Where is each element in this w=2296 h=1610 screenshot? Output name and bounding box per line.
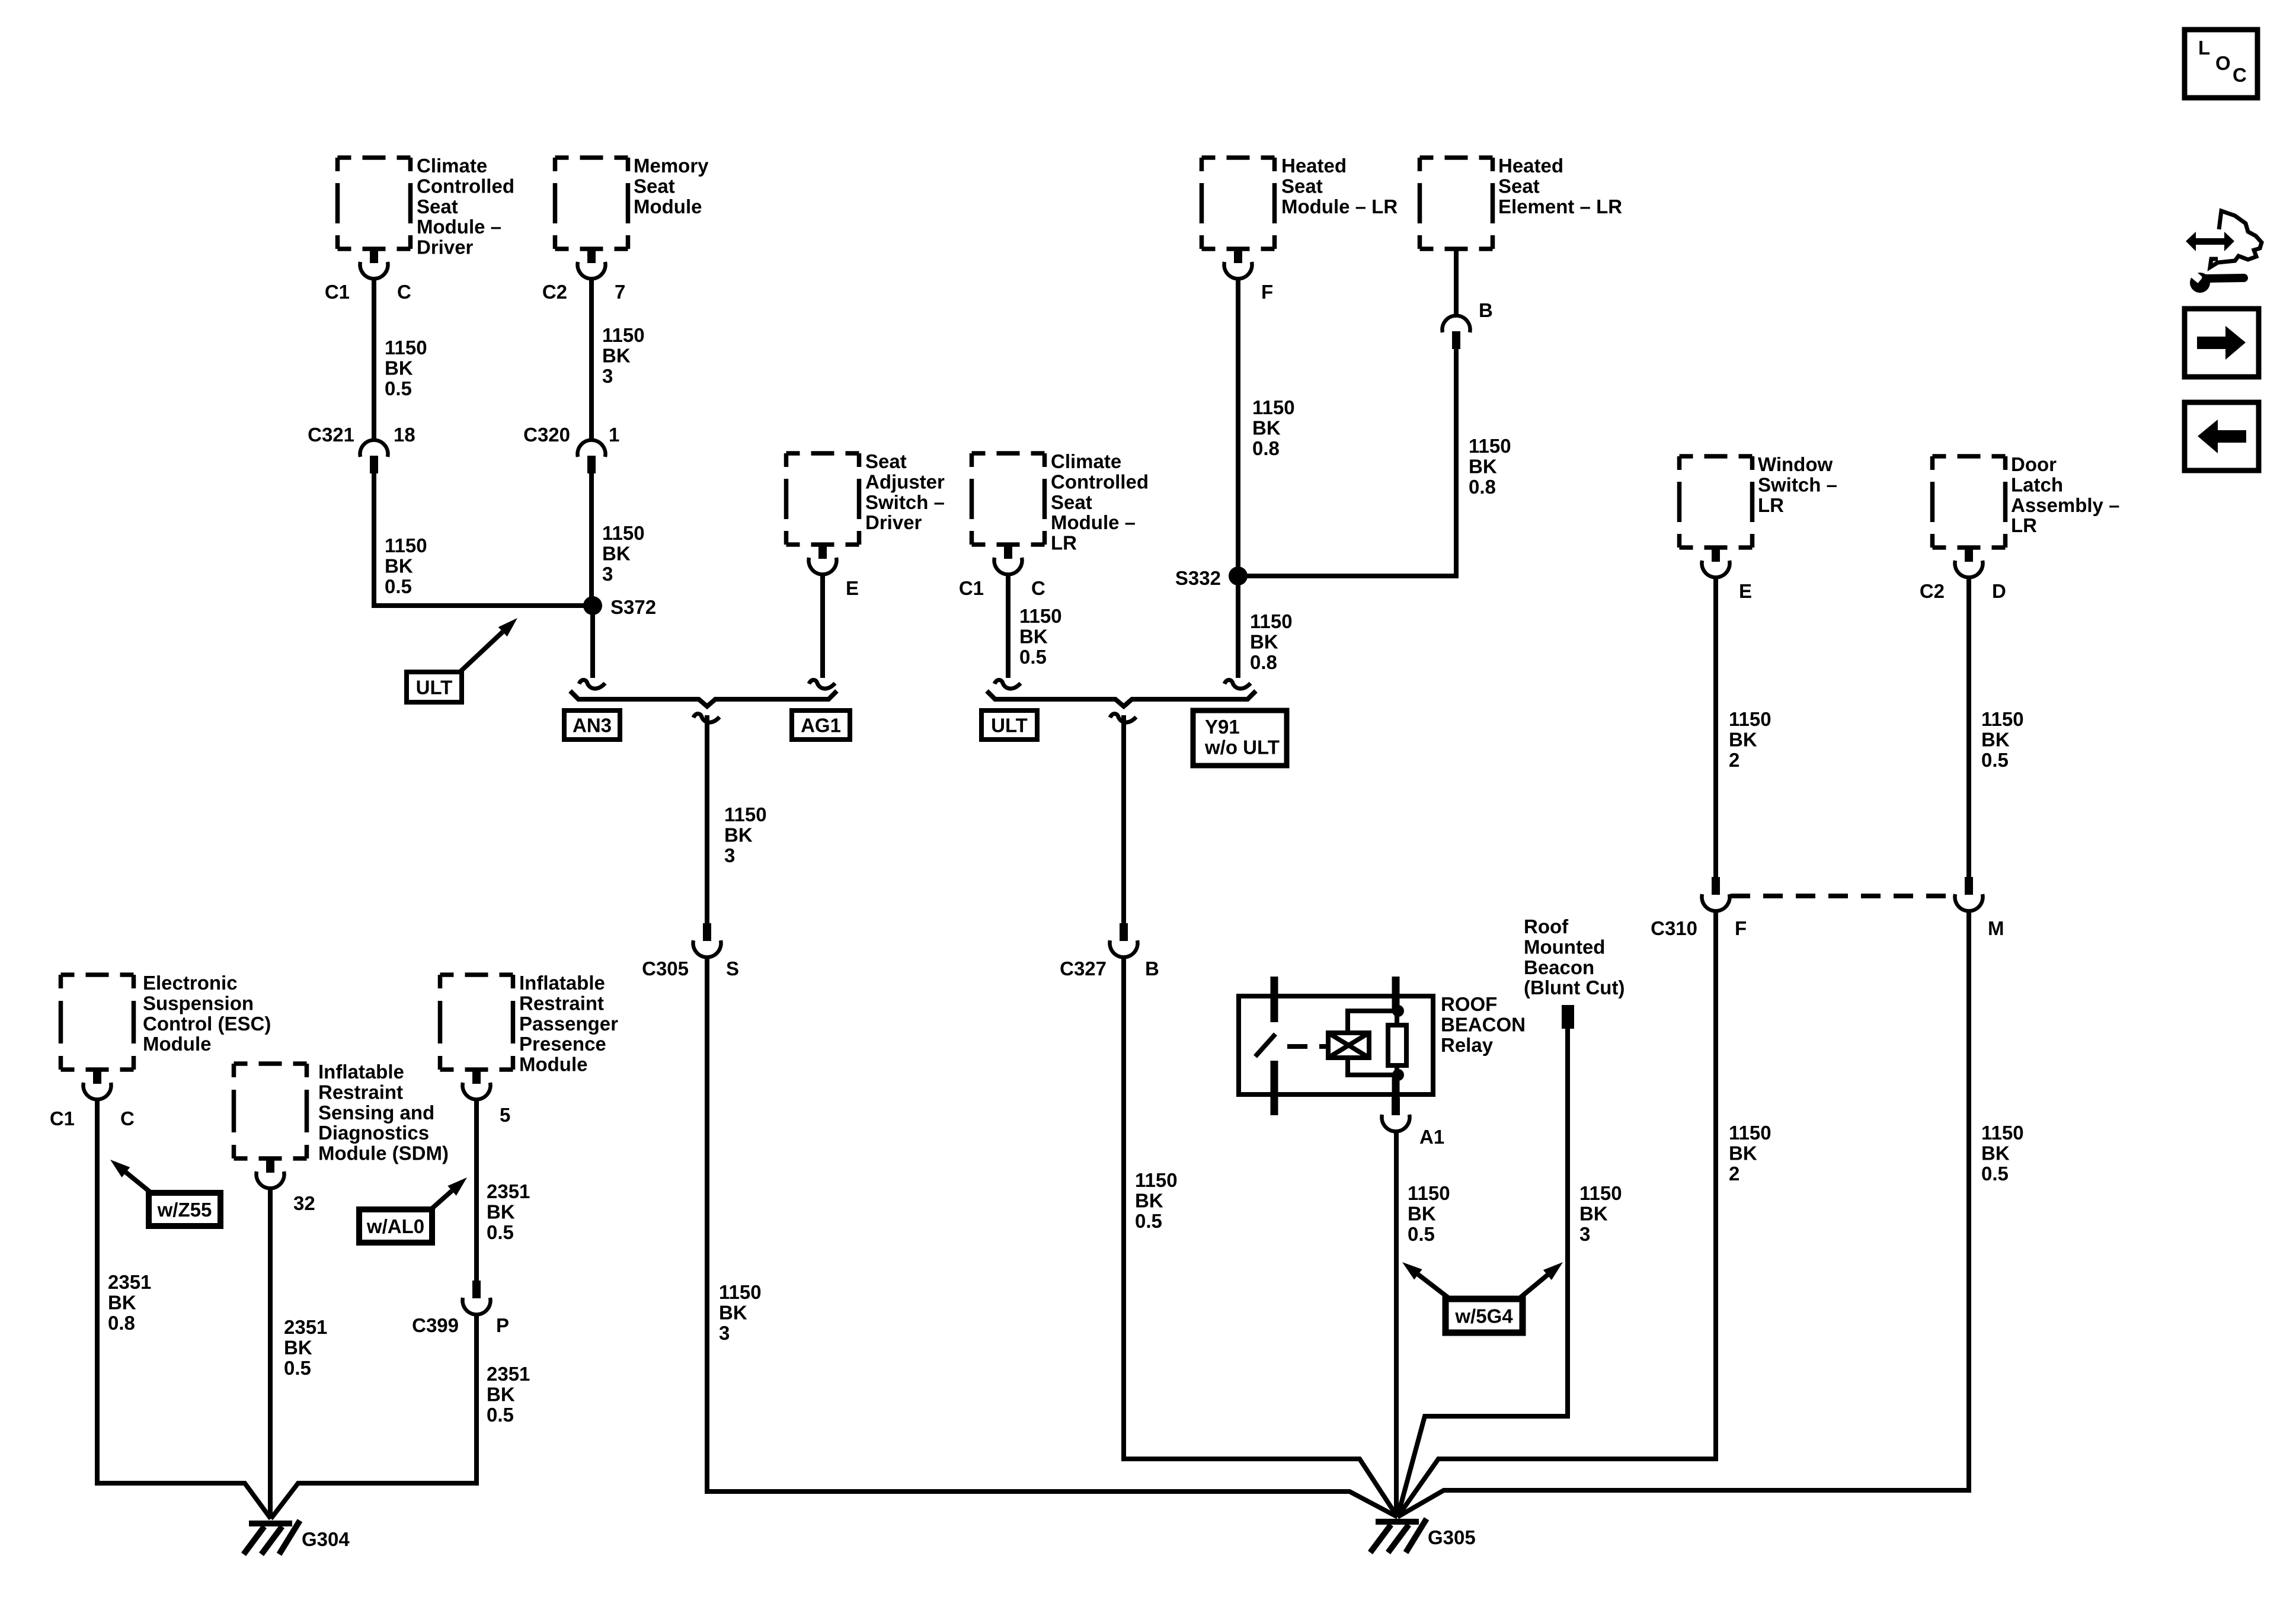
- svg-text:C305: C305: [642, 958, 689, 980]
- wire: CCSM-LR C to ULT bus: [1006, 574, 1011, 678]
- svg-text:S332: S332: [1175, 567, 1221, 589]
- relay actuation dashed link: [1287, 1044, 1329, 1049]
- svg-text:7: 7: [615, 281, 625, 303]
- connector connector B: [1443, 316, 1470, 349]
- wire: blunt cut to G305: [1398, 1029, 1568, 1517]
- hook at AG1 bus: [809, 680, 835, 689]
- svg-text:C1: C1: [325, 281, 350, 303]
- svg-text:C310: C310: [1651, 917, 1697, 939]
- callout w/5G4: [1446, 1299, 1523, 1333]
- svg-text:S: S: [726, 958, 739, 980]
- wire: C305 down, to G305: [707, 957, 1398, 1517]
- wire: ESC C to G304: [97, 1099, 271, 1519]
- wire: Memory Seat 7 to C320: [589, 279, 594, 440]
- wire: C399 to G304: [271, 1314, 477, 1519]
- svg-text:L: L: [2198, 37, 2210, 59]
- LOC reference box: [2185, 30, 2257, 98]
- module box: Seat Adjuster Switch - Driver: [786, 453, 859, 545]
- svg-text:C2: C2: [542, 281, 567, 303]
- ground G304: [244, 1521, 300, 1554]
- svg-text:F: F: [1261, 281, 1273, 303]
- connector Door Latch pin D (C2): [1955, 548, 1982, 577]
- wire: C310 to G305: [1398, 911, 1716, 1517]
- arrow to ULT option wire: [460, 618, 517, 672]
- wire: C327 down to G305: [1124, 957, 1398, 1517]
- svg-text:C1: C1: [50, 1108, 75, 1129]
- svg-text:1: 1: [609, 424, 619, 446]
- splice S332: [1229, 566, 1248, 585]
- module box: Climate Controlled Seat Module - Driver: [338, 158, 411, 249]
- connector C305 pin S: [693, 923, 721, 957]
- connector PPM pin 5: [462, 1070, 490, 1099]
- svg-text:M: M: [1988, 917, 2004, 939]
- connector ESC pin C (C1): [84, 1070, 111, 1099]
- connector CCSM-Driver pin C (C1): [360, 249, 388, 279]
- bus brace ULT/Y91: [987, 691, 1256, 706]
- svg-text:B: B: [1479, 299, 1493, 321]
- callout Y91 w/o ULT: [1193, 710, 1287, 766]
- callout AG1: [792, 710, 850, 740]
- svg-text:Y91: Y91: [1205, 716, 1240, 738]
- connector SDM pin 32: [257, 1158, 284, 1188]
- hook below ULT/Y91 bus notch: [1110, 714, 1136, 723]
- svg-text:ULT: ULT: [416, 677, 453, 699]
- svg-text:18: 18: [394, 424, 415, 446]
- connector C310 pin F: [1702, 877, 1730, 911]
- arrow to beacon wire (w/5G4): [1517, 1262, 1563, 1300]
- relay node dots: [1392, 1005, 1404, 1017]
- callout AN3: [564, 710, 620, 740]
- callout ULT option: [407, 672, 462, 702]
- relay resistor: [1388, 1011, 1406, 1075]
- hook at Y91 bus: [1224, 680, 1251, 689]
- svg-text:B: B: [1145, 958, 1159, 980]
- connector relay pin A1: [1382, 1097, 1410, 1131]
- wire: Heated Seat Module F to S332: [1236, 279, 1240, 576]
- connector C321 pin 18: [360, 440, 388, 473]
- svg-text:C2: C2: [1920, 580, 1945, 602]
- relay box: ROOF BEACON Relay: [1239, 996, 1433, 1094]
- svg-text:C: C: [120, 1108, 135, 1129]
- svg-text:A1: A1: [1419, 1126, 1444, 1148]
- svg-text:w/5G4: w/5G4: [1454, 1305, 1513, 1327]
- svg-text:D: D: [1992, 580, 2006, 602]
- wire: SDM 32 to G304: [268, 1188, 273, 1519]
- svg-text:F: F: [1735, 917, 1747, 939]
- connector connector M: [1955, 877, 1982, 911]
- connector C327 pin B: [1110, 923, 1138, 957]
- relay pin stubs: [1274, 977, 1396, 1115]
- wire: C320 to S372 to AN3 bus: [589, 473, 594, 606]
- svg-text:ULT: ULT: [991, 715, 1028, 737]
- connector Seat Adjuster Switch pin E: [809, 545, 837, 574]
- module box: Inflatable Restraint Sensing and Diagnostics Module (SDM): [234, 1064, 307, 1158]
- module box: Inflatable Restraint Passenger Presence Module: [440, 975, 513, 1070]
- wire: bus to C327: [1121, 715, 1126, 923]
- svg-text:w/o ULT: w/o ULT: [1204, 736, 1280, 758]
- connector C399 pin P: [462, 1281, 490, 1314]
- wire: Door Latch D to M: [1966, 577, 1971, 877]
- svg-text:w/AL0: w/AL0: [366, 1215, 424, 1237]
- wire: S332 to Y91 bus: [1236, 576, 1240, 678]
- module box: Heated Seat Module - LR: [1202, 158, 1275, 249]
- connector Window Switch pin E: [1702, 548, 1730, 577]
- wire: CCSM-Driver C to C321: [372, 279, 376, 440]
- svg-text:S372: S372: [610, 596, 656, 618]
- arrow to A1 wire (w/5G4): [1402, 1262, 1451, 1300]
- module box: Window Switch - LR: [1680, 456, 1753, 548]
- svg-text:C: C: [397, 281, 411, 303]
- svg-text:w/Z55: w/Z55: [157, 1199, 212, 1221]
- icon: back arrow box: [2185, 402, 2259, 470]
- svg-text:5: 5: [500, 1104, 510, 1126]
- ground G305: [1370, 1519, 1427, 1553]
- svg-text:C1: C1: [959, 577, 984, 599]
- hook at ULT bus: [994, 680, 1021, 689]
- connector C320 pin 1: [578, 440, 606, 473]
- dashed connector link C310 to M: [1731, 894, 1956, 898]
- svg-text:E: E: [1739, 580, 1752, 602]
- bus brace AN3/AG1: [570, 691, 837, 706]
- splice S372: [583, 596, 602, 615]
- arrow to ESC wire (w/Z55): [110, 1160, 151, 1193]
- wire: bus to C305: [705, 715, 709, 923]
- relay switch blade: [1255, 1034, 1275, 1057]
- wire: Heated Seat Element to B: [1454, 249, 1459, 316]
- svg-text:G305: G305: [1428, 1526, 1476, 1548]
- hook at AN3 bus: [579, 680, 605, 689]
- module box: Heated Seat Element - LR: [1420, 158, 1493, 249]
- module box: Climate Controlled Seat Module - LR: [972, 453, 1045, 545]
- icon: vehicle with wrench (service info): [2185, 211, 2262, 293]
- wire: PPM 5 to C399: [474, 1099, 479, 1281]
- callout ULT: [981, 710, 1037, 740]
- svg-text:O: O: [2215, 52, 2231, 74]
- svg-text:C: C: [1031, 577, 1045, 599]
- connector CCSM-LR pin C (C1): [994, 545, 1022, 574]
- svg-text:C320: C320: [523, 424, 570, 446]
- svg-text:32: 32: [293, 1192, 315, 1214]
- arrow to PPM wire (w/AL0): [431, 1177, 467, 1209]
- svg-text:AG1: AG1: [801, 715, 841, 737]
- module box: Door Latch Assembly - LR: [1933, 456, 2006, 548]
- blunt cut terminal: [1562, 1005, 1574, 1029]
- icon: forward arrow box: [2185, 309, 2259, 377]
- relay coil wiring: [1348, 1011, 1398, 1033]
- svg-text:C321: C321: [308, 424, 354, 446]
- svg-text:C327: C327: [1060, 958, 1107, 980]
- wire: A1 to G305: [1394, 1131, 1399, 1517]
- svg-text:AN3: AN3: [573, 715, 612, 737]
- module box: Electronic Suspension Control (ESC) Module: [61, 975, 134, 1070]
- callout w/Z55: [149, 1193, 220, 1226]
- svg-text:C399: C399: [412, 1314, 459, 1336]
- svg-text:P: P: [496, 1314, 509, 1336]
- wire: Window Switch E to C310: [1713, 577, 1718, 877]
- relay coil (box with X): [1328, 1033, 1369, 1058]
- connector Memory Seat Module pin 7 (C2): [577, 249, 605, 279]
- wire: Seat Adjuster E to AG1 bus: [820, 574, 825, 678]
- connector Heated Seat Module pin F: [1224, 249, 1252, 279]
- callout w/AL0: [359, 1209, 432, 1243]
- svg-text:G304: G304: [302, 1528, 350, 1550]
- wire: B to S332: [1238, 349, 1456, 576]
- wire: C321 to S372 (elbow): [374, 473, 593, 606]
- wire: M to G305: [1398, 911, 1969, 1517]
- svg-text:C: C: [2233, 64, 2247, 86]
- module box: Memory Seat Module: [555, 158, 628, 249]
- hook below AN3/AG1 bus notch: [693, 714, 720, 723]
- svg-text:E: E: [846, 577, 859, 599]
